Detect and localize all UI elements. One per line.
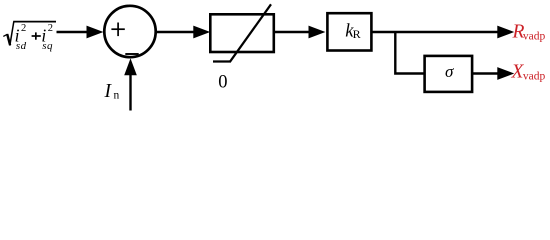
summing junction — [104, 6, 155, 57]
output label X_vadp — [511, 62, 546, 83]
svg-text:vadp: vadp — [523, 31, 546, 43]
wire: input to summing junction — [57, 26, 103, 37]
svg-text:sq: sq — [42, 40, 53, 52]
limiter block (saturation, lower limit 0) — [210, 14, 273, 52]
wire: summer to limiter — [156, 26, 209, 37]
svg-text:R: R — [353, 27, 361, 41]
svg-text:I: I — [104, 81, 113, 102]
block sigma — [425, 56, 473, 92]
svg-text:2: 2 — [21, 23, 26, 34]
wire: k_R to R_vadp output — [371, 26, 512, 37]
block k_R — [327, 13, 371, 50]
node: branch junction to sigma — [395, 32, 424, 74]
wire: limiter to k_R block — [274, 26, 324, 37]
wire: sigma to X_vadp output — [472, 68, 513, 79]
limiter characteristic: lower level foot — [213, 60, 231, 62]
input label sqrt(i_sd^2 + i_sq^2) — [3, 22, 56, 52]
svg-text:0: 0 — [218, 73, 227, 93]
plus in expression — [32, 32, 41, 39]
label I_n — [104, 81, 120, 102]
plus sign — [111, 23, 124, 37]
limiter characteristic: diagonal — [230, 4, 271, 61]
svg-text:n: n — [114, 90, 120, 102]
wire: I_n input arrow — [125, 60, 136, 111]
output label R_vadp — [512, 22, 546, 43]
svg-text:vadp: vadp — [523, 71, 546, 83]
minus sign — [125, 53, 138, 55]
svg-text:2: 2 — [48, 23, 53, 34]
svg-text:sd: sd — [16, 40, 27, 52]
svg-text:σ: σ — [445, 62, 454, 81]
